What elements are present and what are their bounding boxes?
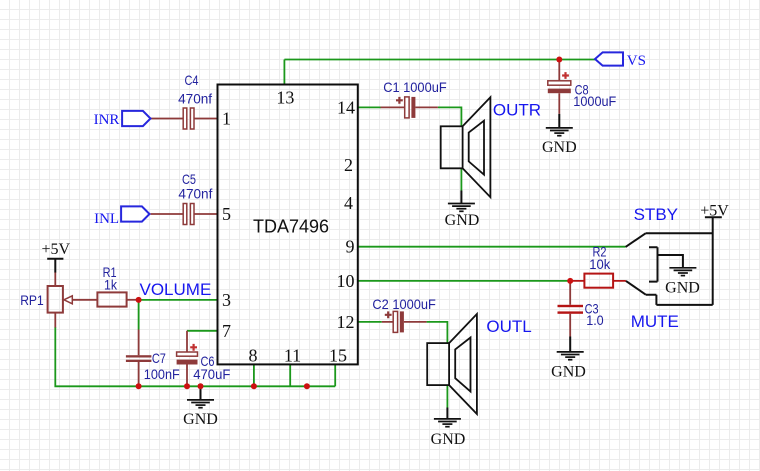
ground C3 <box>551 337 586 381</box>
wire C2 pins <box>382 321 427 323</box>
svg-text:11: 11 <box>284 346 301 366</box>
svg-text:C2 1000uF: C2 1000uF <box>372 296 436 312</box>
op-amp U1 TDA7496 IC body <box>218 85 358 365</box>
svg-text:TDA7496: TDA7496 <box>253 216 329 236</box>
svg-text:470uF: 470uF <box>193 366 230 382</box>
svg-text:GND: GND <box>183 411 218 428</box>
ground main bus <box>183 386 218 428</box>
svg-text:RP1: RP1 <box>20 292 44 308</box>
wire pin10 MUTE <box>358 280 570 282</box>
wire C7 pins <box>138 330 140 387</box>
capacitor C2 <box>372 296 436 332</box>
svg-text:+5V: +5V <box>42 241 71 258</box>
wire C1 to speaker OUTR <box>438 107 462 126</box>
svg-text:470nf: 470nf <box>178 186 212 202</box>
capacitor C8 <box>548 72 617 109</box>
svg-text:1000uF: 1000uF <box>573 93 616 109</box>
wire pin12 to C2 <box>358 321 382 323</box>
port VS <box>595 52 646 69</box>
port INL <box>94 206 149 226</box>
wire pin11 riser <box>289 364 291 386</box>
svg-text:C5: C5 <box>182 171 196 187</box>
svg-text:1.0: 1.0 <box>586 312 604 328</box>
junction bus pin11 <box>304 383 310 389</box>
switch STBY blade <box>626 233 646 247</box>
potentiometer RP1 <box>20 286 97 313</box>
capacitor C7 <box>126 350 180 382</box>
svg-text:INL: INL <box>94 211 119 227</box>
port INR <box>94 111 151 128</box>
capacitor C5 <box>178 171 212 225</box>
wire STBY top contact <box>646 232 713 234</box>
wire +5V rail right <box>712 217 714 305</box>
wire pin14 to C1 <box>358 106 381 108</box>
power +5V right <box>700 202 729 219</box>
wire node VOLUME down to C7 <box>138 300 140 330</box>
resistor R1 <box>97 264 126 307</box>
svg-text:C1 1000uF: C1 1000uF <box>383 79 447 95</box>
svg-text:GND: GND <box>431 431 466 448</box>
svg-text:14: 14 <box>337 97 355 117</box>
capacitor C3 <box>558 301 604 328</box>
speaker OUTR <box>441 97 541 197</box>
svg-text:1: 1 <box>222 109 231 129</box>
wire R1 to node VOLUME <box>127 299 137 301</box>
svg-text:MUTE: MUTE <box>631 312 679 331</box>
wire pin9 STBY <box>358 246 626 248</box>
junction bus C7 <box>136 383 142 389</box>
wire ground bus <box>55 327 335 386</box>
junction bus GND <box>198 383 204 389</box>
svg-text:100nF: 100nF <box>144 366 180 382</box>
capacitor C6 <box>177 344 231 382</box>
svg-text:C4: C4 <box>185 72 199 88</box>
svg-text:OUTL: OUTL <box>486 317 531 336</box>
svg-text:8: 8 <box>249 346 258 366</box>
ground switch <box>665 268 700 297</box>
wire pin13 riser <box>283 60 285 85</box>
svg-text:GND: GND <box>551 363 586 380</box>
svg-text:OUTR: OUTR <box>493 100 541 119</box>
svg-text:9: 9 <box>346 237 355 257</box>
svg-text:VS: VS <box>627 53 646 69</box>
svg-text:+5V: +5V <box>700 202 729 219</box>
wire +5V to RP1 <box>54 272 56 286</box>
junction bus pin8 <box>251 383 257 389</box>
svg-text:7: 7 <box>222 321 231 341</box>
svg-text:VOLUME: VOLUME <box>140 280 212 299</box>
svg-text:GND: GND <box>542 139 577 156</box>
wire speaker OUTL to ground <box>446 386 448 408</box>
wire speaker OUTR to ground <box>460 168 462 190</box>
svg-text:470nf: 470nf <box>178 90 212 106</box>
wire C6 pins <box>186 331 188 387</box>
capacitor C4 <box>178 72 212 129</box>
ground OUTR <box>445 191 480 230</box>
switch common bracket <box>649 247 658 281</box>
svg-text:4: 4 <box>344 193 353 213</box>
junction node VOLUME <box>136 297 142 303</box>
wire R2 pins <box>570 280 626 282</box>
junction node MUTE R2 <box>567 278 573 284</box>
power +5V left <box>42 241 71 272</box>
svg-text:5: 5 <box>222 204 231 224</box>
svg-text:13: 13 <box>276 87 294 107</box>
wire RP1 bottom pin <box>54 313 56 328</box>
wire pin8 riser <box>253 364 255 386</box>
wire C1 pins <box>381 106 438 108</box>
wire MUTE bottom contact <box>646 295 713 305</box>
svg-text:1k: 1k <box>104 276 118 292</box>
svg-text:INR: INR <box>94 112 120 128</box>
svg-text:15: 15 <box>329 346 347 366</box>
wire bracket to ground <box>658 255 683 268</box>
capacitor C1 <box>383 79 447 118</box>
svg-text:12: 12 <box>337 312 355 332</box>
wire INL to C5 to pin5 <box>151 213 218 215</box>
ground OUTL <box>431 408 466 448</box>
wire C3 pins <box>569 281 571 337</box>
wire C2 to speaker OUTL <box>427 322 448 343</box>
switch MUTE blade <box>626 281 646 295</box>
wire VS top bus <box>284 59 595 61</box>
svg-text:C7: C7 <box>152 350 166 366</box>
svg-text:3: 3 <box>222 290 231 310</box>
svg-text:STBY: STBY <box>634 205 678 224</box>
speaker OUTL <box>427 314 532 414</box>
svg-text:10: 10 <box>337 271 355 291</box>
svg-text:GND: GND <box>445 212 480 229</box>
svg-text:10k: 10k <box>589 256 611 272</box>
junction top bus C8 <box>556 57 562 63</box>
svg-text:GND: GND <box>665 280 700 297</box>
junction bus C6 <box>184 383 190 389</box>
ground C8 <box>542 114 577 156</box>
wire C8 pins <box>558 60 560 114</box>
wire INR to C4 to pin1 <box>151 118 218 120</box>
resistor R2 <box>584 244 613 288</box>
wire VOLUME pin3 <box>139 299 218 301</box>
wire pin15 riser <box>334 364 336 386</box>
wire pin7 to C6 <box>187 330 218 332</box>
svg-text:2: 2 <box>344 155 353 175</box>
